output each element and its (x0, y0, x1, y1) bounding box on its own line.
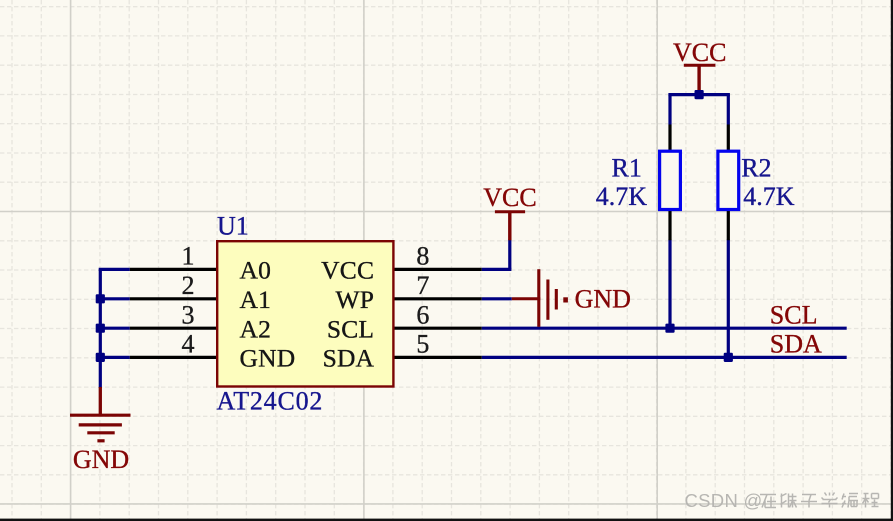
svg-text:AT24C02: AT24C02 (217, 387, 324, 416)
svg-text:CSDN @: CSDN @ (685, 490, 763, 511)
svg-text:U1: U1 (217, 211, 249, 240)
svg-text:WP: WP (336, 285, 375, 314)
svg-text:SDA: SDA (770, 330, 822, 359)
svg-text:2: 2 (182, 271, 195, 300)
svg-text:6: 6 (416, 300, 429, 329)
svg-text:A2: A2 (240, 315, 272, 344)
svg-text:4.7K: 4.7K (596, 182, 648, 211)
svg-text:R2: R2 (741, 154, 771, 183)
svg-text:GND: GND (575, 285, 631, 314)
svg-text:5: 5 (416, 330, 429, 359)
svg-text:R1: R1 (612, 154, 642, 183)
svg-text:GND: GND (73, 445, 129, 474)
svg-text:3: 3 (182, 300, 195, 329)
svg-text:8: 8 (416, 242, 429, 271)
svg-text:SCL: SCL (327, 315, 374, 344)
svg-text:1: 1 (182, 242, 195, 271)
svg-text:GND: GND (240, 344, 296, 373)
svg-text:A0: A0 (240, 256, 272, 285)
svg-text:VCC: VCC (321, 256, 374, 285)
svg-text:4.7K: 4.7K (743, 182, 795, 211)
svg-text:VCC: VCC (483, 183, 536, 212)
svg-text:VCC: VCC (673, 38, 726, 67)
svg-text:A1: A1 (240, 285, 272, 314)
svg-text:SCL: SCL (770, 301, 818, 330)
svg-text:SDA: SDA (323, 344, 375, 373)
svg-text:4: 4 (182, 330, 195, 359)
svg-text:7: 7 (416, 271, 429, 300)
